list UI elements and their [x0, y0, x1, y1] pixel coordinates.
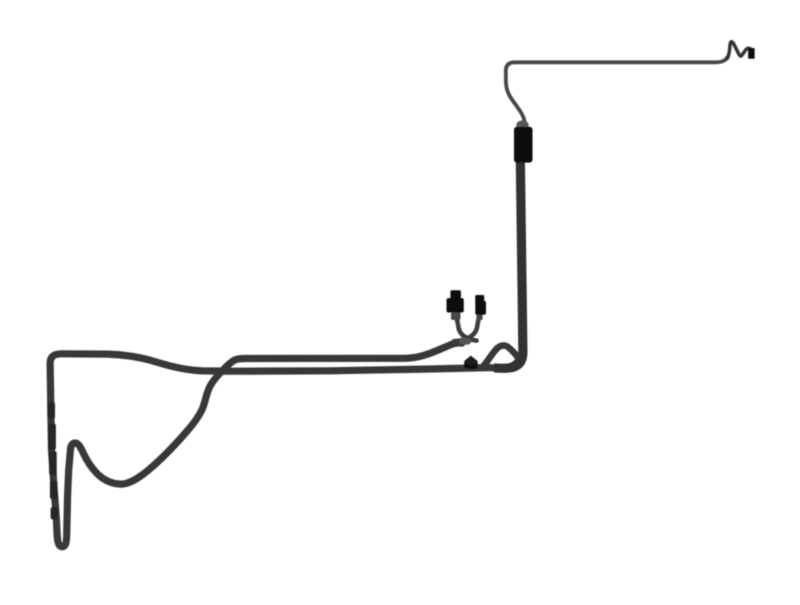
left clip stem	[451, 312, 461, 320]
sleeve segment 2 on left vertical	[48, 424, 56, 451]
small black clamp on bottom run	[464, 356, 477, 367]
expansion loop (hump) near bottom corner	[483, 346, 517, 367]
sleeve segment 5 on left vertical	[51, 507, 58, 520]
sleeve segment 1 on left vertical	[47, 402, 55, 419]
wire: end zigzag (M-bend)	[727, 42, 750, 59]
main tube: thick vertical drop, bottom run, left verticals, swoosh, upper run (one harness tube)	[50, 160, 523, 547]
sleeve segment 4 on left vertical	[50, 481, 58, 499]
inline connector block	[514, 127, 533, 163]
right clip stem	[476, 314, 482, 321]
right clip body	[475, 301, 486, 315]
left clip body	[447, 298, 464, 312]
branch tube from right clip (crosses left)	[454, 317, 479, 342]
connector end block (right tip)	[748, 48, 755, 59]
clamp body	[464, 361, 477, 369]
connector nub on top of block	[516, 120, 528, 129]
sleeve segment 3 on left vertical	[49, 451, 57, 475]
left clip top tier	[450, 290, 461, 299]
right clip top tier	[475, 295, 484, 303]
wire: thin line left elbow descending to inline connector	[506, 62, 525, 123]
branch tube from left clip (crosses right)	[456, 316, 477, 341]
thick vertical tube (reinforced upper section)	[494, 150, 523, 368]
tee fitting capsule at branch junction	[460, 338, 472, 345]
wire: thin upper feed line with end zigzag	[514, 57, 728, 63]
